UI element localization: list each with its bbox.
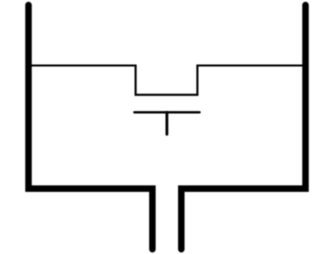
transistor Q1 channel: top rail with notch (thin wire) (31, 66, 303, 95)
wire: left thick lead (drain) - vertical down, horizontal right, leg down (29, 5, 153, 249)
wire: right thick lead (source) - vertical down, horizontal left, leg down (181, 5, 305, 249)
transistor Q1 gate bar (134, 111, 199, 113)
transistor Q1 gate lead (165, 112, 168, 134)
